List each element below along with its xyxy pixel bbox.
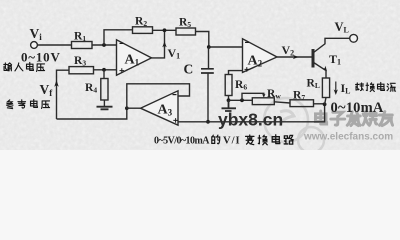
wire Rw to R7 — [274, 102, 290, 103]
op-amp A3 (points left) — [141, 91, 179, 125]
resistor R5 — [176, 28, 196, 35]
capacitor C — [201, 69, 214, 73]
minus sign A2 — [245, 41, 249, 43]
wire A3 feedback loop output to inverting input — [127, 84, 190, 108]
wire R6 bottom to ground node — [228, 96, 230, 101]
wire R2 to R5 — [153, 29, 177, 31]
node Rw wiper tie — [240, 98, 244, 102]
node V1 junction — [163, 28, 167, 32]
wire junction down to capacitor — [208, 47, 210, 69]
wire A2 output to T1 base — [277, 56, 312, 58]
light watermark: elecfans logo circles — [264, 98, 324, 153]
arrow emitter — [322, 66, 327, 71]
wire junction to A2 inverting input — [209, 46, 243, 48]
resistor R2 — [133, 27, 153, 34]
wire R1 to A1 inverting input — [92, 44, 117, 46]
resistor RL — [322, 78, 329, 98]
svg-text:0~10mA: 0~10mA — [331, 100, 384, 116]
wire RL bottom — [325, 98, 326, 105]
wire bottom rail to A3 output — [57, 108, 127, 119]
svg-text:0~10V: 0~10V — [21, 50, 61, 65]
wire R5 right, down to A2 input node — [196, 32, 209, 48]
wire R6 top to A2 non-inverting input — [229, 71, 243, 75]
caption text — [154, 135, 293, 147]
node A2 inverting input junction — [207, 45, 211, 49]
node R3/R4 junction — [102, 68, 106, 72]
label CJK input voltage — [4, 63, 45, 72]
ground under R6 — [222, 100, 237, 111]
node RL bottom junction — [323, 102, 327, 106]
op-amp A2 — [243, 39, 278, 73]
node at R1/A1/R2 junction — [102, 43, 106, 47]
label CJK reference voltage — [7, 100, 50, 109]
plus sign A2 — [245, 67, 250, 72]
node capacitor/A3 rail junction — [206, 120, 210, 124]
node A3 output junction — [125, 106, 129, 110]
wire junction up to R2 — [104, 30, 133, 45]
resistor R4 — [101, 79, 108, 101]
wire capacitor down to A3 rail — [207, 73, 209, 122]
minus sign A3 — [173, 94, 177, 96]
arrow V1 up — [164, 44, 166, 48]
transistor T1 base bar — [312, 49, 315, 68]
wire R7 to RL bottom node — [314, 103, 325, 105]
plus sign A3 — [173, 118, 178, 123]
svg-text:www.elecfans.com: www.elecfans.com — [303, 132, 393, 143]
potentiometer Rw — [252, 98, 274, 105]
arrow Vf up — [54, 80, 58, 87]
op-amp A1 — [117, 40, 152, 75]
resistor R7 — [290, 100, 314, 107]
resistor R6 — [225, 75, 232, 96]
ground under R4 — [97, 107, 113, 110]
wire emitter to RL — [325, 71, 327, 79]
resistor R3 — [69, 67, 94, 74]
svg-text:0~5V/0~10mA: 0~5V/0~10mA — [154, 136, 210, 147]
arrow V2 right — [293, 55, 299, 59]
resistor R1 — [72, 42, 93, 49]
T1 emitter — [314, 63, 326, 71]
scan noise — [0, 0, 400, 150]
node R6 ground junction — [227, 98, 231, 102]
wire wiper loop — [242, 93, 264, 100]
terminal Vi — [31, 42, 38, 49]
svg-text:ybx8.cn: ybx8.cn — [218, 110, 283, 130]
svg-text:V/I: V/I — [223, 136, 241, 147]
wire Vi to R1 — [38, 44, 72, 46]
wire A3 non-inverting rail to RL bottom node — [178, 104, 325, 122]
wire R4 to ground — [103, 100, 105, 107]
label CJK conversion current — [356, 83, 396, 92]
svg-text:C: C — [184, 62, 194, 77]
terminal VL — [350, 34, 358, 42]
wire R3 to A1 non-inverting input — [94, 69, 117, 71]
wire A3 output to triangle — [127, 107, 141, 109]
T1 collector — [314, 38, 350, 52]
light watermark: gray CJK brand text — [315, 111, 392, 126]
wire R4 top — [103, 70, 105, 79]
wire R6 node to Rw — [229, 99, 253, 101]
wire A1 output to V1 node — [152, 32, 165, 58]
plus sign A1 — [120, 68, 125, 73]
wire R3 left to Vf rail — [57, 70, 70, 119]
arrow IL down — [335, 82, 337, 92]
arrow Rw wiper down — [262, 94, 265, 98]
minus sign A1 — [120, 42, 124, 44]
